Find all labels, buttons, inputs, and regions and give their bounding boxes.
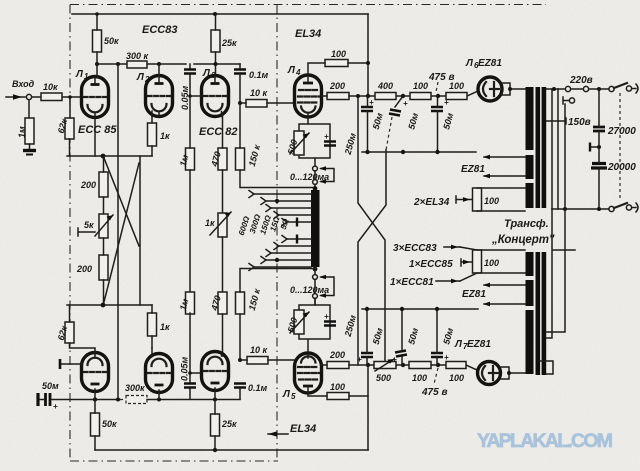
ground (lower input) xyxy=(36,393,39,406)
grid stub Л3 from 1M line xyxy=(190,95,202,97)
meter link bracket xyxy=(321,169,334,182)
power transformer HV winding bottom xyxy=(526,310,534,374)
svg-text:2×EL34: 2×EL34 xyxy=(413,197,450,208)
svg-text:25к: 25к xyxy=(221,38,237,48)
svg-text:+: + xyxy=(403,99,408,108)
node lower supply a xyxy=(401,363,405,367)
svg-text:Трансф.: Трансф. xyxy=(504,218,549,230)
cathode resistor 62к (lower) xyxy=(65,322,74,343)
svg-text:+: + xyxy=(444,98,449,107)
section divider x=277 (dash-dot vertical) xyxy=(276,5,278,462)
resistor 1м (phase splitter upper) xyxy=(186,148,195,170)
svg-text:100: 100 xyxy=(449,373,464,383)
resistor 300к (dashed, NFB) xyxy=(126,396,147,404)
node Л3' plate xyxy=(213,398,217,402)
cathode rail lower y=305 xyxy=(67,304,152,306)
wire 25k leads xyxy=(214,400,216,451)
cap 50м upper 3 xyxy=(431,107,443,111)
svg-text:100: 100 xyxy=(413,81,428,91)
svg-text:25к: 25к xyxy=(221,419,237,429)
svg-text:0...120ма: 0...120ма xyxy=(290,285,329,295)
svg-text:+: + xyxy=(324,132,329,141)
resistor 400 filter xyxy=(375,93,396,100)
svg-text:ECC 82: ECC 82 xyxy=(199,126,238,138)
cathode resistor 1к (lower Л2') xyxy=(148,313,157,336)
ground (input) xyxy=(23,149,36,152)
wire meter to OPT top xyxy=(314,171,316,190)
wire meter to cathode loop lower xyxy=(314,280,316,306)
svg-text:300 к: 300 к xyxy=(126,51,149,61)
OPT tap 600 ohm xyxy=(254,193,311,195)
svg-text:27000: 27000 xyxy=(607,126,636,137)
tube Л4 EL34 pentode xyxy=(295,75,322,117)
node lower supply b xyxy=(436,363,440,367)
wire 50k bottom to plate node xyxy=(96,52,98,77)
svg-text:200: 200 xyxy=(80,180,96,190)
mains line bottom xyxy=(552,208,609,210)
tube Л3' (lower, inverted) xyxy=(202,352,229,400)
node OPT top xyxy=(313,186,318,191)
node lower grid EL34 xyxy=(238,358,242,362)
OPT lower taps mirror xyxy=(287,238,311,240)
svg-text:0.05м: 0.05м xyxy=(180,356,190,381)
cap 250м (lower cathode bypass) xyxy=(324,322,336,326)
meter link bracket lower xyxy=(321,277,334,296)
node lower x=118 xyxy=(116,398,120,402)
svg-text:200: 200 xyxy=(329,350,345,360)
cap 27000 xyxy=(593,127,605,131)
svg-text:EL34: EL34 xyxy=(290,423,316,435)
svg-text:5к: 5к xyxy=(84,220,94,230)
lower plate line y=399 xyxy=(95,399,120,401)
meter jack lower circle 2 xyxy=(313,294,318,299)
cross-coupling vertical x=118 xyxy=(117,64,119,399)
switch linkage dash line xyxy=(619,93,621,200)
resistor 50к (lower plate load) xyxy=(91,413,100,436)
wire lower screen xyxy=(308,392,368,396)
svg-text:+: + xyxy=(324,312,329,321)
cap 0.1м coupling xyxy=(234,70,246,74)
chassis border bottom (dash-dot) xyxy=(70,460,278,462)
rectifier tube Л6 EZ81 xyxy=(478,77,502,101)
node grid EL34 xyxy=(238,101,242,105)
node Л3 plate xyxy=(214,62,218,66)
cap divider junction bar xyxy=(591,146,599,148)
svg-text:0.05м: 0.05м xyxy=(180,85,190,110)
wire lower rail to 62k to cathode xyxy=(70,305,96,354)
wire grid line to 62k xyxy=(69,97,72,156)
svg-text:10 к: 10 к xyxy=(250,88,268,98)
wire screen to 100 to B+ vert xyxy=(308,63,368,75)
svg-text:50к: 50к xyxy=(104,36,119,46)
potentiometer 500 (lower cathode) xyxy=(294,310,304,334)
resistor 100 (lower supply b) xyxy=(446,362,466,369)
heater leads EZ81 top xyxy=(484,157,525,176)
cap 50м upper 1 xyxy=(361,107,373,111)
tube Л5 EL34 pentode (lower, inverted) xyxy=(295,353,322,393)
svg-text:+: + xyxy=(369,98,374,107)
svg-text:ECC83: ECC83 xyxy=(142,24,177,36)
wire rail to 200 xyxy=(103,156,105,214)
tap 150в terminal xyxy=(569,98,574,103)
svg-text:200: 200 xyxy=(329,81,345,91)
node screen rail / 25k xyxy=(213,12,217,16)
potentiometer 500 (lower supply) xyxy=(374,362,396,369)
svg-text:Л: Л xyxy=(282,389,291,400)
cap 20000 xyxy=(591,164,607,169)
anode bracket lower rectifier xyxy=(501,367,526,379)
svg-text:EL34: EL34 xyxy=(295,28,321,40)
cathode loop Л4 xyxy=(299,117,330,165)
crossing wire L1 (upper plate to lower OPT end) xyxy=(358,96,385,365)
meter jack upper circle 1 xyxy=(313,166,318,171)
mains switch lower pole xyxy=(614,203,627,208)
svg-text:500: 500 xyxy=(376,373,391,383)
wire lower 1M chain xyxy=(189,313,191,399)
resistor 200 plate EL34 xyxy=(327,93,349,100)
OPT tap 15 ohm xyxy=(279,214,311,216)
svg-text:10 к: 10 к xyxy=(250,345,268,355)
svg-text:Вход: Вход xyxy=(12,79,35,89)
wire Л1 cathode to rail xyxy=(94,117,96,156)
resistor 1м (phase splitter lower) xyxy=(186,292,195,314)
resistor 25к plate load Л3 xyxy=(211,30,220,52)
cap 50м lower 1 xyxy=(361,353,373,357)
resistor 25к (lower plate load) xyxy=(211,414,220,436)
svg-text:Л: Л xyxy=(136,72,145,83)
tube Л3 ECC82 triode xyxy=(202,76,229,117)
resistor 100 (lower supply a) xyxy=(409,362,431,369)
resistor 470 (upper) xyxy=(218,148,227,170)
svg-text:Л: Л xyxy=(75,69,84,80)
cap 0.05м (lower coupling) xyxy=(184,384,196,388)
input arrow xyxy=(6,96,25,98)
resistor 10к grid stopper EL34 xyxy=(246,100,267,108)
wire 150k chain / NFB corner to OPT top xyxy=(240,103,313,188)
cross-coupling diagonal A xyxy=(104,158,139,246)
resistor 100 filter b xyxy=(446,93,467,100)
resistor 200 lower plate xyxy=(327,362,349,369)
node lower B+ xyxy=(366,363,370,367)
svg-text:1к: 1к xyxy=(160,322,170,332)
hum pot 100 (ECC heaters) xyxy=(473,250,482,273)
resistor 100 screen EL34 xyxy=(325,60,348,67)
svg-text:475 в: 475 в xyxy=(428,72,455,83)
cross-coupling vertical x=140 xyxy=(139,156,141,305)
resistor 1м (grid leak) xyxy=(25,118,34,144)
svg-text:100: 100 xyxy=(330,382,345,392)
power transformer winding ECC heater xyxy=(526,252,534,276)
secondary right-side winding leads xyxy=(546,209,565,338)
hum pot 100 (EL34 heaters) xyxy=(473,188,482,211)
node lower cathode rail xyxy=(101,303,106,308)
cap 50м upper 2 (tilted w/ dashed lead) xyxy=(395,96,403,107)
wire 10k to Л4 grid xyxy=(240,102,295,104)
OPT tap 150 ohm xyxy=(271,207,311,209)
wire cap to node xyxy=(40,399,95,401)
power transformer winding EL34 heater xyxy=(526,183,534,208)
resistor 200 (lower divider) xyxy=(99,255,108,280)
svg-text:50м: 50м xyxy=(42,381,59,391)
wire HV doubler chain xyxy=(598,89,600,209)
wire plate line y=96 xyxy=(321,95,368,97)
heater leads EL34 xyxy=(477,188,525,211)
potentiometer 500 (cathode) xyxy=(294,131,304,155)
wire lower 150k NFB corner xyxy=(240,269,313,400)
svg-text:0.1м: 0.1м xyxy=(249,70,269,80)
wire x=368 lower to bottom rail xyxy=(367,365,369,450)
resistor 50к plate load xyxy=(93,30,102,52)
svg-text:1м: 1м xyxy=(17,126,27,138)
wire 50k top to screen rail xyxy=(96,14,98,30)
svg-text:Л: Л xyxy=(465,58,474,69)
svg-text:1к: 1к xyxy=(205,218,215,228)
cathode resistor 62к xyxy=(65,118,74,139)
node filter a xyxy=(401,94,405,98)
svg-text:1к: 1к xyxy=(160,131,170,141)
screen supply rail y=14 xyxy=(72,13,368,15)
wire 1M chain xyxy=(189,96,191,292)
svg-text:150в: 150в xyxy=(568,117,591,128)
svg-text:5: 5 xyxy=(291,392,296,401)
resistor 100 screen lower EL34 xyxy=(327,393,349,400)
output transformer winding bar xyxy=(311,190,320,267)
resistor 470 (lower) xyxy=(218,292,227,314)
potentiometer 1к balance (middle) xyxy=(218,213,227,237)
wire input to R 10k xyxy=(32,96,82,98)
svg-text:100: 100 xyxy=(331,49,346,59)
cathode rail upper y=156 xyxy=(67,155,152,157)
svg-text:100: 100 xyxy=(412,373,427,383)
svg-text:100: 100 xyxy=(484,258,499,268)
wire 5k to 200 to lower rail xyxy=(103,238,105,305)
node plate Л1 xyxy=(95,62,99,66)
svg-text:50к: 50к xyxy=(102,419,117,429)
svg-text:1×ECC81: 1×ECC81 xyxy=(390,277,434,288)
wire 25k top / bottom xyxy=(215,14,217,76)
svg-text:Л: Л xyxy=(454,339,463,350)
power transformer HV winding top xyxy=(526,87,534,150)
node lower 1 xyxy=(93,397,97,401)
svg-text:Л: Л xyxy=(287,65,296,76)
tube Л1' (lower, inverted) xyxy=(82,353,109,400)
meter jack upper circle 2 xyxy=(313,180,318,185)
svg-text:220в: 220в xyxy=(569,75,593,86)
ground rail lower xyxy=(362,308,478,310)
grid tie bar (lower input tube) xyxy=(60,363,82,365)
cap 0.1м (lower coupling) xyxy=(234,384,246,388)
potentiometer 5к balance xyxy=(99,214,108,238)
rectifier tube Л7 EZ81 xyxy=(478,362,501,385)
svg-text:EZ81: EZ81 xyxy=(462,289,486,300)
cross-coupling diagonal B xyxy=(104,163,139,302)
heater leads EZ81 bottom xyxy=(484,285,525,304)
svg-text:+: + xyxy=(53,402,58,411)
cathode loop Л5 (lower EL34) xyxy=(299,299,330,355)
svg-text:„Концерт": „Концерт" xyxy=(491,234,555,246)
power transformer core lower stack xyxy=(536,252,541,375)
upper B+ rail xyxy=(368,91,478,96)
svg-text:EZ81: EZ81 xyxy=(478,58,502,69)
svg-text:200: 200 xyxy=(76,264,92,274)
svg-text:400: 400 xyxy=(377,81,393,91)
plate line y=64 xyxy=(97,63,240,65)
svg-text:0...120ма: 0...120ма xyxy=(290,172,329,182)
resistor 150к (upper) xyxy=(236,148,245,170)
svg-text:YAPLAKAL.COM: YAPLAKAL.COM xyxy=(477,430,613,452)
resistor 10к (input) xyxy=(41,93,62,101)
resistor 100 filter a xyxy=(410,93,431,100)
wire lower 470 to Л3' cathode xyxy=(222,314,224,356)
svg-text:1×ECC85: 1×ECC85 xyxy=(409,259,453,270)
wire input circle down to 1M xyxy=(28,100,30,118)
node OPT bottom xyxy=(313,267,318,272)
wire 50k to bottom rail xyxy=(94,400,96,451)
resistor 150к (lower) xyxy=(236,292,245,314)
power transformer core upper stack xyxy=(536,87,541,208)
wire lower plate line xyxy=(321,364,368,366)
resistor 300к coupling xyxy=(127,61,147,68)
tube Л2 ECC83 triode xyxy=(146,76,173,117)
wire Л2 cathode to 1k to rail xyxy=(151,116,153,156)
wire screen rail down to B+ node xyxy=(367,14,369,96)
input terminal circle xyxy=(26,94,31,99)
OPT tap 5 ohm + common xyxy=(287,221,311,223)
heater leads ECC xyxy=(460,247,525,281)
cap 50м (lower input electrolytic) xyxy=(46,393,51,406)
svg-text:0.1м: 0.1м xyxy=(248,383,268,393)
cap 250м (cathode bypass) xyxy=(324,142,336,146)
meter jack lower circle 1 xyxy=(313,275,318,280)
node filter b xyxy=(436,94,440,98)
cap 50м lower 3 xyxy=(431,353,443,357)
node B+ upper xyxy=(366,94,370,98)
wire lower rail to 1k to cathode xyxy=(151,305,153,348)
svg-text:+: + xyxy=(392,355,397,364)
anode bracket upper rectifier xyxy=(502,83,527,95)
grid stub lower Л3' xyxy=(190,372,202,374)
power transformer winding EZ81 heater top xyxy=(526,155,534,179)
wire 470 chain top xyxy=(222,114,224,213)
power transformer winding EZ81 heater bottom xyxy=(526,280,534,306)
svg-text:300к: 300к xyxy=(125,383,145,393)
wire 300k to Л2' plate xyxy=(147,399,240,401)
node Л2 plate xyxy=(157,62,161,66)
cathode resistor 1к (Л2) xyxy=(148,123,157,146)
wire 1k pot to lower 470 xyxy=(222,237,224,292)
chassis border top (dash-dot) xyxy=(70,4,546,6)
node cathode rail xyxy=(101,154,106,159)
resistor 10к (lower grid stopper) xyxy=(247,357,268,365)
svg-text:+: + xyxy=(444,353,449,362)
node x=118 on plate line xyxy=(116,62,120,66)
wiper lead 5k xyxy=(78,228,95,236)
svg-text:EZ81: EZ81 xyxy=(461,164,485,175)
ground rail upper xyxy=(362,151,476,153)
svg-text:EZ81: EZ81 xyxy=(467,339,491,350)
svg-text:20000: 20000 xyxy=(607,162,636,173)
cap 50м lower 2 (tilted) xyxy=(395,351,407,357)
svg-text:10к: 10к xyxy=(43,82,58,92)
tube Л1 ECC85 triode xyxy=(82,77,109,118)
lower B+ rail xyxy=(368,365,477,370)
cap 0.05м coupling xyxy=(184,70,196,74)
node bottom rail 25k xyxy=(213,448,217,452)
mains switch upper pole xyxy=(614,83,627,88)
crossing wire L2 (lower plate to upper OPT end) xyxy=(358,150,386,365)
wire lower 10k to Л5 grid xyxy=(240,359,295,361)
resistor 200 (upper divider) xyxy=(99,172,108,197)
OPT tap 300 ohm xyxy=(266,200,311,202)
wire 1M to ground xyxy=(29,144,31,150)
chassis border left (dash-dot) xyxy=(69,5,71,462)
svg-text:100: 100 xyxy=(484,196,499,206)
svg-text:+: + xyxy=(357,355,362,364)
svg-text:475 в: 475 в xyxy=(421,387,448,398)
svg-text:ECC 85: ECC 85 xyxy=(78,124,117,136)
primary winding taps vertical xyxy=(552,89,565,209)
tube Л2' (lower, inverted) xyxy=(146,348,173,399)
svg-text:3×ECC83: 3×ECC83 xyxy=(393,243,437,254)
bottom rail y=450 xyxy=(95,449,368,451)
